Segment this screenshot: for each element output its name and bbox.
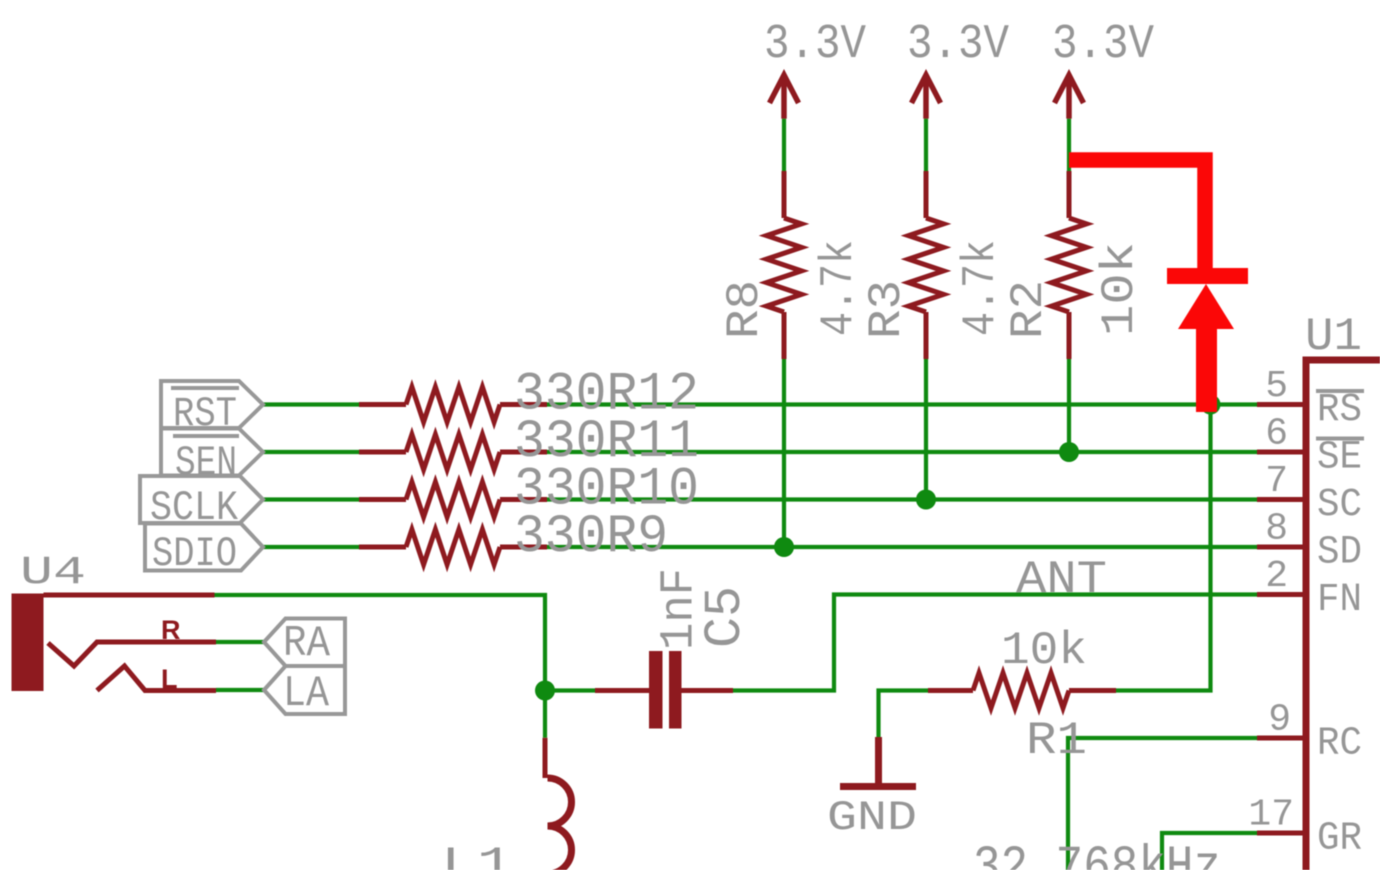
- wire LA: [216, 688, 264, 692]
- svg-text:330R9: 330R9: [514, 507, 668, 568]
- svg-text:U4: U4: [20, 551, 86, 596]
- svg-text:17: 17: [1248, 794, 1294, 837]
- svg-text:LA: LA: [283, 669, 330, 719]
- svg-text:L1: L1: [441, 840, 513, 870]
- svg-text:3.3V: 3.3V: [1052, 18, 1154, 72]
- resistor R11 body: [359, 435, 547, 470]
- annotation red arrow tail: [1196, 327, 1217, 412]
- net flag RST: [161, 381, 263, 428]
- wire SEN net row: [263, 450, 1257, 454]
- svg-text:RC: RC: [1317, 722, 1362, 767]
- pin 7 stub: [1257, 497, 1303, 502]
- pin 9 stub: [1257, 736, 1303, 741]
- svg-text:RA: RA: [283, 619, 331, 669]
- audio jack U4 top wire: [44, 593, 215, 598]
- svg-text:SEN: SEN: [175, 439, 237, 487]
- wire R8 pullup vertical: [782, 119, 786, 547]
- pin 2 stub: [1257, 592, 1303, 597]
- audio jack U4 sleeve: [12, 594, 44, 692]
- junction SCLK/R3: [916, 490, 936, 510]
- wire RST to R1 vertical: [1116, 405, 1211, 691]
- svg-text:L: L: [161, 664, 178, 694]
- pin 17 stub: [1257, 831, 1303, 836]
- net flag RA: [264, 619, 345, 667]
- svg-text:10k: 10k: [1001, 625, 1087, 677]
- resistor R2 body: [1052, 171, 1087, 359]
- svg-text:SDIO: SDIO: [152, 530, 237, 578]
- audio jack U4 right contact: [48, 642, 216, 666]
- audio jack U4 left contact: [97, 666, 216, 691]
- svg-text:4.7k: 4.7k: [955, 240, 1007, 336]
- wire pin 17 to crystal: [1162, 833, 1257, 870]
- power 3.3V arrow (R8 net): [770, 75, 799, 119]
- svg-text:R1: R1: [1026, 715, 1087, 767]
- svg-text:RS: RS: [1317, 388, 1362, 433]
- svg-text:U1: U1: [1305, 311, 1362, 363]
- resistor R8 body: [767, 171, 802, 359]
- svg-text:9: 9: [1268, 699, 1291, 742]
- net flag SCLK: [140, 476, 263, 523]
- annotation red arrow head: [1178, 284, 1234, 329]
- net flag LA: [264, 666, 345, 714]
- svg-text:ANT: ANT: [1016, 554, 1107, 606]
- svg-text:FN: FN: [1317, 578, 1362, 623]
- junction U4 out/C5/L1: [535, 681, 555, 701]
- wire junction down to L1: [543, 691, 547, 738]
- svg-text:6: 6: [1265, 413, 1288, 456]
- net flag SDIO: [145, 524, 263, 571]
- wire junction to C5: [545, 688, 595, 692]
- pin 6 stub: [1257, 450, 1303, 455]
- wire C5 to ANT pin 2: [733, 595, 1257, 691]
- wire RA: [216, 640, 264, 644]
- junction SDIO/R8: [774, 537, 794, 557]
- pin 8 stub: [1257, 545, 1303, 550]
- inductor L1: [543, 738, 548, 778]
- svg-text:GR: GR: [1317, 817, 1362, 862]
- svg-text:SE: SE: [1317, 436, 1362, 481]
- capacitor C5 plates: [595, 688, 649, 693]
- IC U1 box outline: [1306, 360, 1380, 870]
- pin 5 stub: [1257, 402, 1303, 407]
- svg-text:GND: GND: [827, 794, 917, 842]
- net flag SEN: [161, 429, 263, 476]
- power 3.3V arrow (R3 net): [912, 75, 941, 119]
- wire SDIO net row: [263, 545, 1257, 549]
- annotation red wire highlight: [1069, 160, 1205, 270]
- svg-text:RST: RST: [173, 390, 237, 438]
- svg-text:3.3V: 3.3V: [907, 18, 1009, 72]
- junction RST/pin5: [1201, 395, 1221, 415]
- svg-text:7: 7: [1265, 460, 1288, 503]
- resistor R12 body: [359, 387, 547, 422]
- resistor R10 body: [359, 482, 547, 517]
- junction SEN/R2: [1059, 442, 1079, 462]
- svg-text:3.3V: 3.3V: [764, 18, 866, 72]
- resistor R3 body: [909, 171, 944, 359]
- resistor R1 body: [928, 673, 1116, 708]
- svg-text:R3: R3: [861, 280, 913, 339]
- wire R2 pullup vertical: [1067, 119, 1071, 452]
- wire R3 pullup vertical: [924, 119, 928, 500]
- svg-text:5: 5: [1265, 365, 1288, 408]
- svg-text:C5: C5: [696, 586, 755, 648]
- wire SCLK net row: [263, 497, 1257, 501]
- svg-text:SC: SC: [1317, 483, 1362, 528]
- svg-text:SCLK: SCLK: [150, 484, 239, 532]
- svg-text:R2: R2: [1003, 280, 1055, 339]
- svg-text:32.768kHz: 32.768kHz: [973, 838, 1221, 870]
- svg-text:2: 2: [1265, 555, 1288, 598]
- wire U4 output to junction: [215, 595, 546, 691]
- svg-text:4.7k: 4.7k: [813, 240, 865, 336]
- svg-text:R8: R8: [719, 280, 771, 339]
- svg-text:10k: 10k: [1094, 242, 1146, 336]
- wire pin 9 to crystal: [1068, 738, 1257, 870]
- svg-text:R: R: [161, 615, 181, 645]
- wire RST net row: [263, 402, 1257, 406]
- svg-text:SD: SD: [1317, 531, 1362, 576]
- resistor R9 body: [359, 530, 547, 565]
- wire R1 left to GND drop: [879, 691, 929, 738]
- annotation red cathode bar: [1167, 268, 1248, 284]
- power 3.3V arrow (R2 net): [1055, 75, 1084, 119]
- svg-text:8: 8: [1265, 508, 1288, 551]
- ground symbol GND: [840, 737, 916, 787]
